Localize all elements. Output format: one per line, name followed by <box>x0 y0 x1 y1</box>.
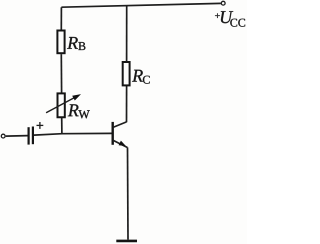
terminal +Ucc output <box>221 1 225 5</box>
label +Ucc <box>215 11 245 27</box>
wire: RC top to top rail <box>126 6 128 63</box>
wire: top rail <box>61 3 221 7</box>
label RB <box>67 37 85 50</box>
wire: RB bottom to RW top <box>60 54 62 93</box>
rheostat RW body <box>58 93 65 117</box>
wire: input terminal to capacitor <box>6 135 28 138</box>
capacitor C plate right <box>32 127 34 145</box>
wire: RW bottom to base node <box>61 118 63 134</box>
label RC <box>132 70 150 84</box>
wire: capacitor to transistor base <box>34 133 112 135</box>
label RW <box>68 104 90 118</box>
resistor RB <box>57 31 64 54</box>
wire: collector vertical to RC <box>126 86 128 122</box>
ground <box>116 240 137 243</box>
input terminal <box>1 134 5 138</box>
polarity plus sign <box>37 122 44 129</box>
wire: emitter vertical to ground <box>127 147 130 239</box>
resistor RC <box>123 62 130 85</box>
transistor Q emitter diagonal with arrow <box>113 140 127 147</box>
transistor Q collector diagonal <box>113 122 127 128</box>
arrow of RW <box>46 94 81 113</box>
wire: left rail from top rail to RB <box>60 7 62 30</box>
capacitor C plate left <box>28 127 30 144</box>
transistor Q base bar <box>111 122 113 145</box>
